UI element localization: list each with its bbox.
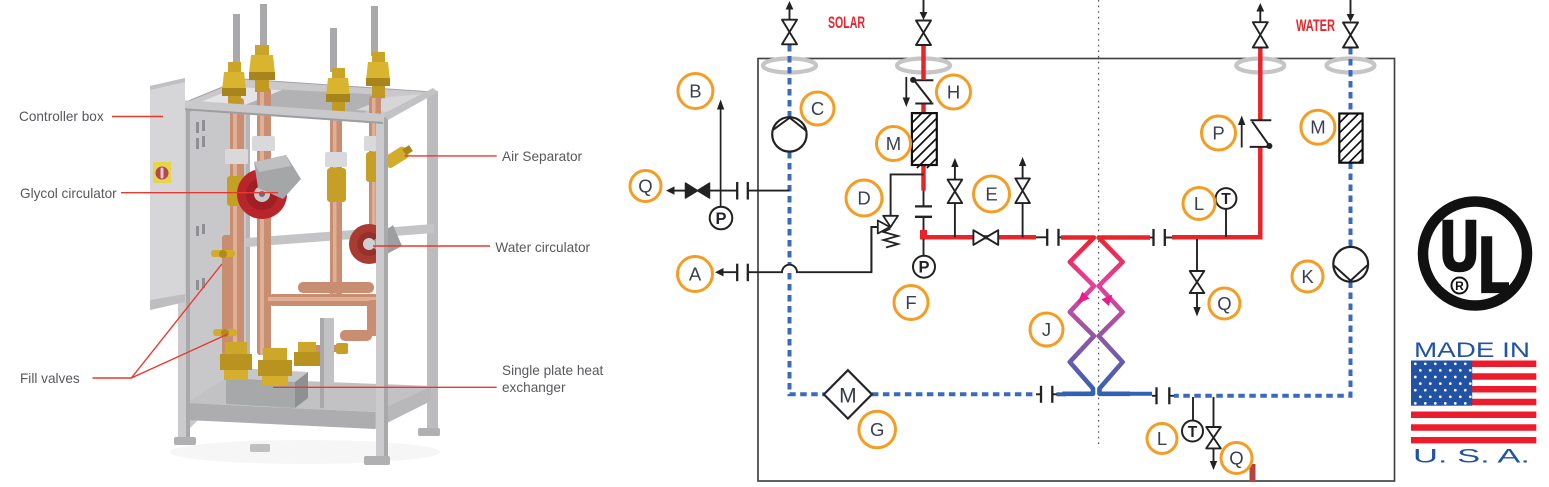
node F (894, 286, 928, 320)
B riser with arrow and gauge P (710, 100, 733, 230)
glycol pump motor housing (254, 155, 301, 199)
node C (801, 92, 834, 125)
left fill-valve copper column (222, 235, 233, 355)
black stubs horizontal union on red pipe (1036, 236, 1047, 238)
red pipe solar horizontal (921, 235, 1036, 240)
union bottom right of coil (1152, 395, 1157, 397)
top plate (230, 88, 386, 118)
node Q bottom (1221, 443, 1252, 474)
svg-text:L: L (1157, 428, 1167, 449)
top valve water hot (1253, 3, 1268, 48)
controller box (150, 78, 185, 310)
check valve H symbol (903, 77, 934, 107)
orange label circles (630, 74, 1335, 474)
node G (859, 411, 896, 448)
node P right (1202, 116, 1236, 150)
blue dashed pipe solar return vertical (788, 45, 792, 118)
svg-text:Air Separator: Air Separator (502, 149, 583, 164)
blue stub before coil (1057, 392, 1067, 396)
brass base nut stack 3 (294, 342, 320, 366)
glycol circulator pump red volute (237, 169, 287, 219)
red stub coil top left union (1061, 235, 1066, 240)
heat exchanger left coil (1062, 238, 1094, 394)
svg-text:E: E (985, 184, 997, 205)
svg-text:Water circulator: Water circulator (495, 240, 590, 255)
red pipe below filter (921, 164, 926, 191)
threaded rod 2 (260, 4, 267, 50)
gray ellipse solar supply (763, 59, 816, 73)
UL logo letter L (1481, 236, 1509, 293)
gray strut on base (320, 318, 334, 408)
base platform front skirt (186, 403, 375, 429)
copper horizontal run upper (298, 282, 374, 293)
node J (1030, 313, 1063, 346)
frame top right bar (383, 88, 438, 120)
divider dotted line (1098, 0, 1100, 447)
canton stars (1414, 362, 1472, 404)
relief valve D (871, 174, 923, 272)
brass valve 1 (222, 62, 246, 106)
border box (758, 59, 1395, 482)
red pipe water hot upper (1258, 48, 1263, 121)
threaded rod 3 (330, 28, 337, 72)
E drain branch 1 (948, 158, 963, 237)
UL logo letter U (1442, 220, 1476, 273)
node M solar (877, 127, 911, 161)
svg-text:B: B (689, 81, 701, 102)
svg-text:Controller box: Controller box (19, 109, 104, 124)
gray ellipse water hot (1236, 59, 1284, 73)
svg-text:M: M (886, 133, 901, 154)
top valve solar return (782, 1, 797, 44)
union right of right coil (1150, 237, 1154, 239)
gray ellipse water cold (1327, 59, 1375, 73)
svg-text:T: T (1221, 191, 1231, 208)
feet (174, 437, 196, 445)
node D (846, 180, 882, 216)
brass coupling pipe4 (366, 152, 385, 182)
wire white gap for A-line hop (781, 264, 798, 273)
gate valve on red pipe (973, 230, 998, 245)
right coil flow arrow (1102, 295, 1113, 307)
back-left post (242, 79, 250, 380)
svg-text:P: P (918, 259, 929, 277)
heat exchanger box right (295, 372, 308, 408)
threaded rod 1 (233, 14, 240, 66)
water circulator pump (349, 224, 389, 264)
svg-text:F: F (905, 292, 916, 313)
svg-text:SOLAR: SOLAR (828, 14, 865, 32)
front-left post (178, 104, 190, 445)
A line with arrow, union, hop (715, 227, 878, 281)
frame top front bar (181, 100, 383, 124)
svg-text:P: P (715, 210, 726, 228)
pump C impeller (773, 118, 805, 131)
pump K circle (1333, 247, 1368, 282)
thin copper tube (300, 345, 342, 352)
svg-text:K: K (1301, 266, 1314, 287)
left Q line: arrow, valve, union (666, 182, 790, 200)
brass coupling pipe1 (227, 176, 247, 206)
vertical union tick 2 (915, 216, 932, 218)
svg-text:exchanger: exchanger (502, 380, 566, 395)
red junction block (920, 230, 927, 240)
E drain branch 2 (1015, 157, 1030, 237)
node L bottom (1147, 424, 1177, 454)
mid rail (246, 224, 434, 247)
check valve P symbol (1238, 116, 1272, 150)
top valve solar hot (916, 0, 931, 45)
fill valve handle lower (213, 329, 237, 336)
back-right post (427, 91, 438, 432)
air separator (382, 143, 414, 170)
svg-text:A: A (689, 264, 702, 285)
blue dashed pipe bottom left to union (872, 392, 1036, 396)
svg-text:P: P (1212, 123, 1224, 144)
node L upper (1183, 188, 1215, 220)
brass base nut stack 1 (220, 342, 252, 380)
left side panel (190, 80, 246, 428)
svg-text:Q: Q (1217, 293, 1231, 314)
front-right post (376, 117, 388, 462)
panel vent slots (196, 120, 205, 290)
gauge P middle (923, 239, 925, 256)
red pipe between H and filter (921, 103, 926, 114)
svg-text:Q: Q (1229, 448, 1243, 469)
pipe clamp blocks (225, 136, 386, 167)
svg-text:MADE IN: MADE IN (1414, 339, 1530, 362)
node B (678, 74, 713, 109)
heat exchanger right coil (1099, 238, 1130, 394)
UL registered mark (1452, 278, 1468, 294)
heat exchanger box top (226, 368, 308, 382)
blue dashed water cold mid (1349, 163, 1353, 248)
svg-text:WATER: WATER (1296, 17, 1335, 35)
vertical union tick 1 (915, 205, 932, 207)
svg-text:H: H (947, 82, 960, 103)
UL logo ring (1423, 202, 1527, 306)
copper low horizontal (340, 330, 372, 341)
node M water (1301, 110, 1335, 144)
blue dashed water cold vertical top (1349, 48, 1353, 114)
base platform top (186, 378, 431, 412)
svg-text:M: M (839, 384, 857, 407)
svg-text:C: C (811, 98, 824, 119)
controller switch (153, 162, 171, 183)
unit shadow (170, 440, 440, 464)
svg-text:Single plate heat: Single plate heat (502, 363, 603, 378)
copper pipe 2 (257, 88, 271, 355)
red mark bottom border (1250, 464, 1256, 482)
heat exchanger box front (226, 378, 295, 408)
brass base nut stack 2 (258, 348, 292, 386)
copper pipe 1 (230, 98, 244, 352)
top valve water cold (1343, 0, 1358, 48)
node A (678, 257, 713, 292)
red pipe water hot: horizontal and riser (1172, 147, 1260, 237)
union bottom left of coil (1036, 393, 1041, 395)
pump C circle (772, 117, 806, 151)
svg-text:R: R (1455, 279, 1464, 293)
brass valve 4 (366, 52, 390, 98)
node Q mid right (1209, 288, 1240, 319)
Q drain upper right (1190, 239, 1205, 317)
svg-text:Q: Q (638, 176, 652, 197)
filter M solar (912, 113, 937, 168)
svg-text:M: M (1310, 117, 1325, 138)
threaded rod 4 (371, 6, 378, 56)
US flag canton (1411, 361, 1472, 406)
copper pipe 4 (369, 96, 381, 240)
node H (937, 75, 971, 109)
blue dashed water cold lower + bottom horizontal (1174, 282, 1351, 396)
bottom Q drain valve (1206, 397, 1221, 470)
left coil flow arrow (1078, 292, 1090, 304)
node E (974, 176, 1010, 212)
svg-text:T: T (1188, 424, 1198, 441)
brass coupling pipe3 (327, 168, 346, 202)
filter M water (1339, 114, 1362, 163)
fill valve handle upper (211, 250, 235, 257)
svg-text:L: L (1194, 193, 1204, 214)
brass valve 2 (249, 45, 275, 92)
bottom T gauge (1182, 397, 1203, 442)
gray ellipse solar hot (897, 59, 950, 73)
blue stub right coil bottom (1130, 392, 1152, 396)
svg-text:U. S. A.: U. S. A. (1413, 446, 1530, 468)
copper elbow down (367, 300, 379, 336)
node K (1292, 261, 1323, 292)
US flag stripes (1411, 361, 1536, 444)
top face inner white openings (198, 87, 282, 107)
gauge T upper right (1225, 209, 1227, 237)
flow meter diamond G (824, 370, 872, 418)
svg-text:Glycol circulator: Glycol circulator (20, 186, 117, 201)
union ticks on red pipe (1046, 229, 1048, 246)
top face of frame (181, 79, 433, 119)
base platform right skirt (375, 386, 431, 429)
red stub right coil to union (1130, 235, 1150, 240)
svg-text:Fill valves: Fill valves (20, 371, 80, 386)
svg-text:G: G (870, 419, 884, 440)
brass valve 3 (326, 68, 350, 114)
copper horizontal run lower (268, 294, 380, 306)
pump K impeller (1334, 265, 1368, 280)
svg-text:J: J (1042, 319, 1051, 340)
node Q left (630, 171, 661, 202)
copper pipe 3 (330, 112, 342, 302)
svg-text:D: D (857, 188, 870, 209)
black stubs vertical union below filter (923, 191, 925, 207)
red pipe solar hot top (921, 45, 926, 79)
